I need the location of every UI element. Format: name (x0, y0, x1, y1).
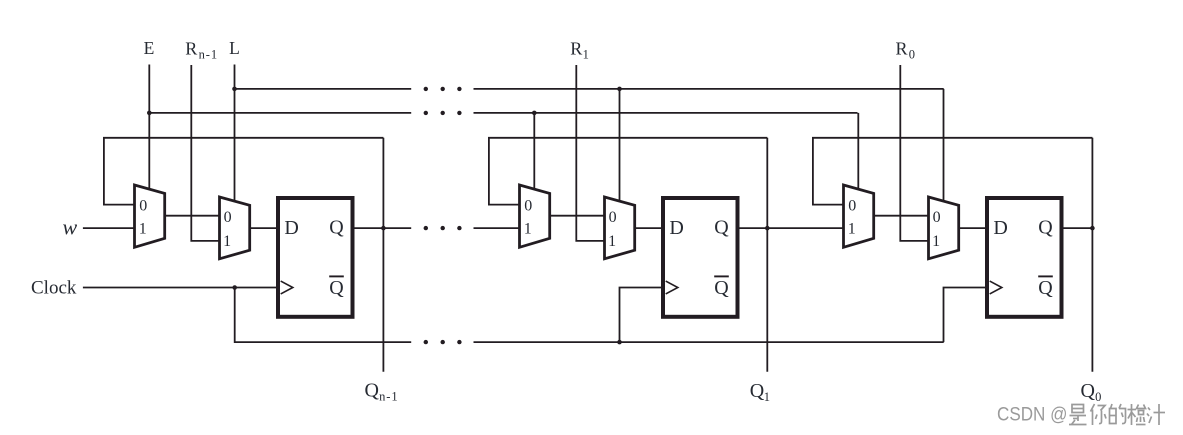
ellipsis dot on clock rail (457, 340, 461, 344)
svg-text:1: 1 (223, 233, 231, 250)
watermark glyph cheng (1128, 404, 1146, 425)
junction Q node stage 3 (1090, 226, 1095, 231)
clock triangle FF2 (666, 281, 678, 294)
wire clock branch stage 2 (620, 288, 662, 343)
ellipsis dot on serial row (457, 226, 461, 230)
junction L-rail tap stage 1 (232, 87, 237, 92)
wire Q vertical stage 3 (1091, 138, 1093, 372)
wire L-rail segment B (474, 88, 944, 90)
mux E-select stage 3 (844, 185, 874, 247)
wire L drop stage 3 (943, 89, 945, 201)
wire clock branch stage 3 (944, 288, 986, 343)
junction Q node stage 1 (381, 226, 386, 231)
wire serial row continuation (474, 227, 520, 229)
wire Q output stage 1 (355, 227, 412, 229)
wire L-rail segment A (235, 88, 412, 90)
junction L-rail tap stage 2 (617, 87, 622, 92)
svg-text:E: E (144, 38, 155, 58)
svg-text:Q: Q (714, 277, 729, 299)
watermark glyph de (1110, 404, 1126, 424)
ellipsis dot on clock rail (441, 340, 445, 344)
overbar Qbar FF1 (329, 275, 344, 277)
svg-text:0: 0 (524, 198, 532, 215)
mux L-select stage 1 (220, 197, 250, 259)
junction E-rail tap stage 2 (532, 111, 537, 116)
flip-flop FF1 (278, 198, 353, 317)
wire R drop stage 3 (900, 65, 928, 241)
mux E-select stage 1 (135, 185, 165, 247)
ellipsis dot on E-rail (457, 111, 461, 115)
wire Q output stage 2 (739, 227, 844, 229)
watermark glyph ni (1091, 404, 1107, 425)
svg-text:0: 0 (909, 47, 915, 61)
flip-flop FF3 (987, 198, 1062, 317)
svg-text:Q: Q (750, 380, 765, 402)
svg-text:Q: Q (364, 380, 379, 402)
clock triangle FF1 (281, 281, 293, 294)
svg-text:R: R (570, 39, 582, 59)
wire w input (83, 227, 135, 229)
svg-text:D: D (669, 217, 683, 239)
wire E drop stage 3 (857, 113, 859, 189)
wire E-rail segment A (149, 112, 411, 114)
wire feedback stage 3 (813, 138, 1093, 205)
junction clock tap stage 2 (617, 340, 622, 345)
wire mux1 out stage 1 (165, 215, 220, 217)
svg-text:Q: Q (1038, 277, 1053, 299)
junction Q node stage 2 (765, 226, 770, 231)
ellipsis dot on serial row (441, 226, 445, 230)
ellipsis dot on clock rail (424, 340, 428, 344)
svg-text:Q: Q (714, 217, 729, 239)
wire mux2 out stage 1 (250, 227, 276, 229)
ellipsis dot on E-rail (441, 111, 445, 115)
wire E input drop (148, 65, 150, 190)
mux L-select stage 3 (929, 197, 959, 259)
wire mux2 out stage 3 (959, 227, 985, 229)
svg-text:n-1: n-1 (379, 390, 398, 404)
svg-text:Q: Q (1080, 380, 1095, 402)
svg-text:0: 0 (609, 209, 617, 226)
svg-text:Clock: Clock (31, 278, 77, 299)
wire L drop stage 2 (619, 89, 621, 201)
wire clock rail segment A (235, 288, 412, 343)
svg-text:R: R (185, 39, 197, 59)
svg-text:Q: Q (329, 217, 344, 239)
wire mux2 out stage 2 (635, 227, 661, 229)
svg-text:w: w (62, 214, 77, 239)
wire R drop stage 1 (191, 65, 219, 241)
ellipsis dot on L-rail (424, 87, 428, 91)
svg-text:Q: Q (1038, 217, 1053, 239)
wire clock input (83, 287, 276, 289)
svg-text:CSDN @: CSDN @ (997, 404, 1067, 426)
svg-text:n-1: n-1 (199, 47, 218, 61)
svg-text:1: 1 (932, 233, 940, 250)
svg-text:0: 0 (1095, 390, 1101, 404)
wire mux1 out stage 2 (550, 215, 605, 217)
svg-text:1: 1 (608, 233, 616, 250)
wire feedback stage 2 (489, 138, 767, 205)
wire mux1 out stage 3 (874, 215, 929, 217)
ellipsis dot on L-rail (457, 87, 461, 91)
wire clock rail segment B (474, 341, 944, 343)
svg-text:0: 0 (139, 198, 147, 215)
svg-text:0: 0 (848, 198, 856, 215)
wire Q vertical stage 2 (766, 138, 768, 372)
wire R drop stage 2 (576, 65, 604, 241)
overbar Qbar FF2 (714, 275, 729, 277)
ellipsis dot on E-rail (424, 111, 428, 115)
clock triangle FF3 (990, 281, 1002, 294)
wire feedback stage 1 (104, 138, 384, 205)
wire Q output stage 3 (1063, 227, 1092, 229)
junction clock tap stage 1 (232, 285, 237, 290)
svg-text:1: 1 (524, 221, 532, 238)
ellipsis dot on L-rail (441, 87, 445, 91)
wire L input drop (234, 65, 236, 202)
wire E drop stage 2 (533, 113, 535, 189)
svg-text:D: D (284, 217, 298, 239)
ellipsis dot on serial row (424, 226, 428, 230)
svg-text:0: 0 (933, 209, 941, 226)
watermark glyph zhi (1147, 404, 1165, 425)
overbar Qbar FF3 (1038, 275, 1053, 277)
junction E-rail tap stage 1 (147, 111, 152, 116)
flip-flop FF2 (663, 198, 738, 317)
wire Q vertical stage 1 (382, 138, 384, 372)
watermark glyph shi (1069, 405, 1087, 425)
svg-text:L: L (229, 38, 240, 58)
mux L-select stage 2 (605, 197, 635, 259)
svg-text:1: 1 (583, 47, 589, 61)
svg-text:D: D (993, 217, 1007, 239)
mux E-select stage 2 (520, 185, 550, 247)
svg-text:Q: Q (329, 277, 344, 299)
svg-text:1: 1 (139, 221, 147, 238)
svg-text:R: R (895, 39, 907, 59)
svg-text:1: 1 (764, 390, 770, 404)
wire E-rail segment B (474, 112, 858, 114)
svg-text:1: 1 (848, 221, 856, 238)
svg-text:0: 0 (224, 209, 232, 226)
